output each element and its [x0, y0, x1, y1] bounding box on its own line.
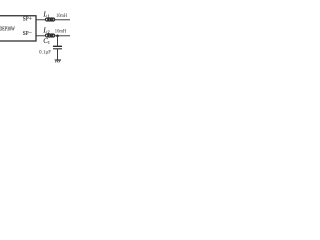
svg-text:10mH: 10mH	[55, 29, 67, 34]
svg-text:SP−: SP−	[23, 30, 33, 37]
svg-text:SP+: SP+	[23, 16, 33, 23]
wire C1 to ground	[57, 49, 59, 60]
svg-text:1: 1	[48, 14, 50, 19]
wire SP+ pin to L1	[36, 19, 46, 21]
node junction dot on L2 wire	[56, 35, 59, 38]
IC U1 box (DEP30W amplifier, left edge cut off)	[0, 16, 36, 41]
svg-text:1: 1	[48, 40, 50, 45]
svg-text:DEP30W: DEP30W	[0, 27, 15, 33]
inductor L2 coil	[45, 34, 54, 37]
svg-text:2: 2	[48, 30, 50, 35]
wire L2 to right edge	[55, 35, 70, 37]
svg-text:0.1μF: 0.1μF	[39, 50, 51, 55]
wire SP- pin to L2	[36, 35, 46, 37]
ground symbol	[55, 59, 61, 61]
wire junction down to C1	[57, 36, 59, 46]
wire L1 to right edge	[55, 19, 70, 21]
capacitor C1 plates	[53, 45, 62, 47]
svg-text:10mH: 10mH	[56, 14, 67, 19]
inductor L1 coil	[45, 18, 54, 21]
